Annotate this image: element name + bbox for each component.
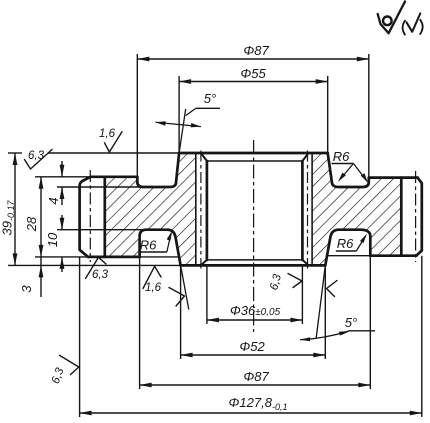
svg-text:1,6: 1,6 [99,128,116,140]
right lower rim wall with R6 into web bottom [360,230,370,256]
svg-text:5°: 5° [345,315,357,330]
phi87 top extension lines [136,54,138,177]
roughness 1.6 under hub bottom [143,266,161,288]
dimension phi87 bottom [140,384,371,386]
bore chamfer diagonals top [201,153,207,161]
general roughness mark (check with circle) [378,2,405,34]
roughness check on left slant [169,288,185,307]
svg-text:28: 28 [24,216,39,232]
svg-text:R6: R6 [140,238,157,253]
pitch line left [89,170,91,262]
svg-text:6,3: 6,3 [28,150,45,162]
dimension phi127.8-0.1 [80,412,422,414]
left lower rim wall with R6 into web bottom [140,230,147,257]
web top extension line [57,186,143,188]
main axis center line [253,140,255,332]
svg-text:1,6: 1,6 [145,282,162,294]
dimension phi55 [179,81,328,83]
phi127.8 extension lines [79,257,81,417]
rim top extension line [35,176,91,178]
dimension phi52 [181,354,326,356]
top face extension line [8,152,22,154]
dimension 10 [61,215,63,230]
roughness 1.6 on top face [105,132,123,152]
roughness 6.3 on phi127.8 extension [60,355,79,374]
phi36 extension lines [206,265,208,324]
phi87 bottom extension lines [139,257,141,389]
hatched section left half [105,153,196,265]
svg-text:3: 3 [19,285,34,293]
tooth root line right [400,178,403,256]
dimension 39-0.17 [14,153,16,265]
svg-text:R6: R6 [333,149,350,164]
bore wall left [206,161,209,260]
svg-text:4: 4 [46,197,61,204]
phi55 extension lines [178,76,180,153]
rim top face left [91,175,138,178]
dimension 3 [39,265,44,277]
left web bottom and hub lower slant with R6 [146,230,180,266]
svg-text:Φ87: Φ87 [243,43,269,58]
roughness 6.3 top left [25,150,53,170]
rim bottom seen through right groove [328,255,370,257]
bore wall right [301,161,304,260]
bore spline pitch line left [200,151,202,269]
bore spline pitch line right [307,151,309,269]
svg-text:5°: 5° [204,91,216,106]
top face outline [179,152,328,155]
dimension phi36 [207,319,303,321]
dimension 28 [40,177,42,297]
web bottom extension line [57,229,146,231]
svg-text:10: 10 [45,232,60,247]
left groove wall and bottom (hub 5deg slant, R6) [137,153,179,187]
top 5deg slant extension [179,109,186,153]
dimension phi87 top [137,58,368,60]
rim top face right [369,176,418,179]
tooth root line left [103,177,106,257]
roughness 6.3 on bore extension [288,274,302,288]
rim bottom face right [370,254,416,257]
svg-text:Φ55: Φ55 [240,66,266,81]
svg-text:Φ52: Φ52 [239,339,265,354]
right web bottom and hub lower slant with R6 [339,228,361,231]
roughness check on right slant [327,281,338,297]
tooth right: chamfers and outer edge [416,178,422,256]
svg-text:Φ87: Φ87 [243,369,269,384]
svg-text:R6: R6 [337,236,354,251]
svg-text:6,3: 6,3 [92,269,109,281]
bottom right 5deg slant extension [316,265,325,338]
dimension 4 [61,161,63,177]
bore chamfer diagonals bottom [201,260,207,266]
parenthesized check [403,20,406,35]
tooth left: chamfers and outer edge [80,177,91,257]
hub bottom face [181,264,326,267]
bore spline root line left [195,153,197,265]
hub bottom extension line [8,264,181,266]
phi52 extension lines [180,265,182,359]
rim bottom face left [88,256,140,259]
hatched section right half [312,153,401,265]
bore spline root line right [311,153,313,265]
right groove wall and bottom (hub 5deg slant, R6) [328,153,369,187]
rim bottom extension line [35,256,88,258]
pitch line right [415,171,417,262]
roughness 6.3 under rim bottom [86,257,107,278]
bottom left 5deg slant extension [181,265,189,309]
bore chamfer edge top [207,160,303,162]
bore chamfer edge bottom [207,259,303,261]
